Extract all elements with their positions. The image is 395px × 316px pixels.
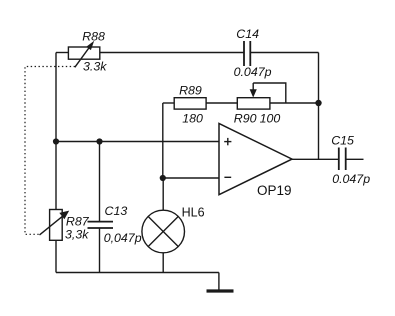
capacitor C15 plates <box>339 148 346 171</box>
svg-text:0,047p: 0,047p <box>104 231 142 245</box>
wire C14 right plate to top-right corner <box>250 52 318 54</box>
wire R89 left terminal to corner <box>163 102 174 104</box>
capacitor C13 plates <box>88 222 114 228</box>
wire R90 wiper vertical <box>252 83 254 90</box>
wire C15 output stub <box>346 158 364 160</box>
potentiometer R90 wiper arrowhead <box>250 89 257 97</box>
wire R90 right terminal to feedback node <box>270 102 319 104</box>
node junction dot inverting input <box>160 175 166 181</box>
wire right vertical feedback (top corner down to output) <box>318 53 320 160</box>
wire top-left from left vertical to R88 <box>56 52 68 54</box>
svg-text:HL6: HL6 <box>182 205 205 219</box>
wire R89 branch vertical down to inverting node <box>162 103 164 178</box>
wire non-inverting input rail <box>56 141 219 143</box>
svg-text:R90: R90 <box>234 112 257 126</box>
wire left vertical upper (R88 left down to + node) <box>55 53 57 142</box>
wire inverting node to op-amp minus input <box>163 177 219 179</box>
svg-text:0.047p: 0.047p <box>234 65 272 79</box>
resistor R88 (variable) body <box>68 47 99 59</box>
wire R90 wiper loop top and down to output side <box>253 83 286 103</box>
svg-text:3.3k: 3.3k <box>83 60 107 74</box>
op-amp non-inverting + marker <box>224 138 231 145</box>
potentiometer R90 body <box>237 98 270 109</box>
resistor R87 (variable) body <box>50 210 63 241</box>
node junction dot feedback/output <box>315 100 321 106</box>
wire R88 right to C14 left plate <box>100 52 244 54</box>
op-amp inverting - marker <box>224 176 231 178</box>
ground symbol <box>207 289 234 292</box>
wire left vertical lower (R87 bottom to bottom rail) <box>55 240 57 272</box>
lamp HL6 cross <box>148 217 178 247</box>
mechanical coupling dotted link R88-R87 <box>25 67 75 235</box>
svg-text:C15: C15 <box>331 133 354 147</box>
svg-text:OP19: OP19 <box>257 183 292 198</box>
wire inverting node down to lamp HL6 <box>162 178 164 210</box>
resistor R89 body <box>174 98 206 109</box>
svg-text:100: 100 <box>260 112 281 126</box>
svg-text:R88: R88 <box>82 30 105 44</box>
wire C13 lower lead <box>99 228 101 273</box>
node junction dot at left + rail <box>53 138 59 144</box>
svg-text:C13: C13 <box>105 204 128 218</box>
resistor R87 adjustment arrow <box>40 211 70 235</box>
wire R89 to R90 <box>206 102 237 104</box>
svg-text:R89: R89 <box>179 84 202 98</box>
wire ground stub <box>218 273 220 291</box>
svg-text:R87: R87 <box>66 215 90 229</box>
wire left vertical mid (+ node down to R87 top) <box>55 142 57 210</box>
capacitor C14 plates <box>244 41 250 66</box>
wire C13 upper lead <box>99 142 101 222</box>
svg-text:3,3k: 3,3k <box>65 228 89 242</box>
svg-text:0.047p: 0.047p <box>332 172 370 186</box>
wire op-amp output to C15 <box>292 158 339 160</box>
wire lamp bottom to bottom rail <box>162 253 164 273</box>
svg-text:180: 180 <box>182 112 203 126</box>
resistor R88 adjustment arrow <box>75 41 94 68</box>
lamp HL6 circle <box>142 210 185 253</box>
op-amp U1 triangle <box>219 124 292 195</box>
svg-text:C14: C14 <box>236 27 259 41</box>
node junction dot C13 tap <box>96 138 102 144</box>
wire bottom rail <box>56 272 219 274</box>
